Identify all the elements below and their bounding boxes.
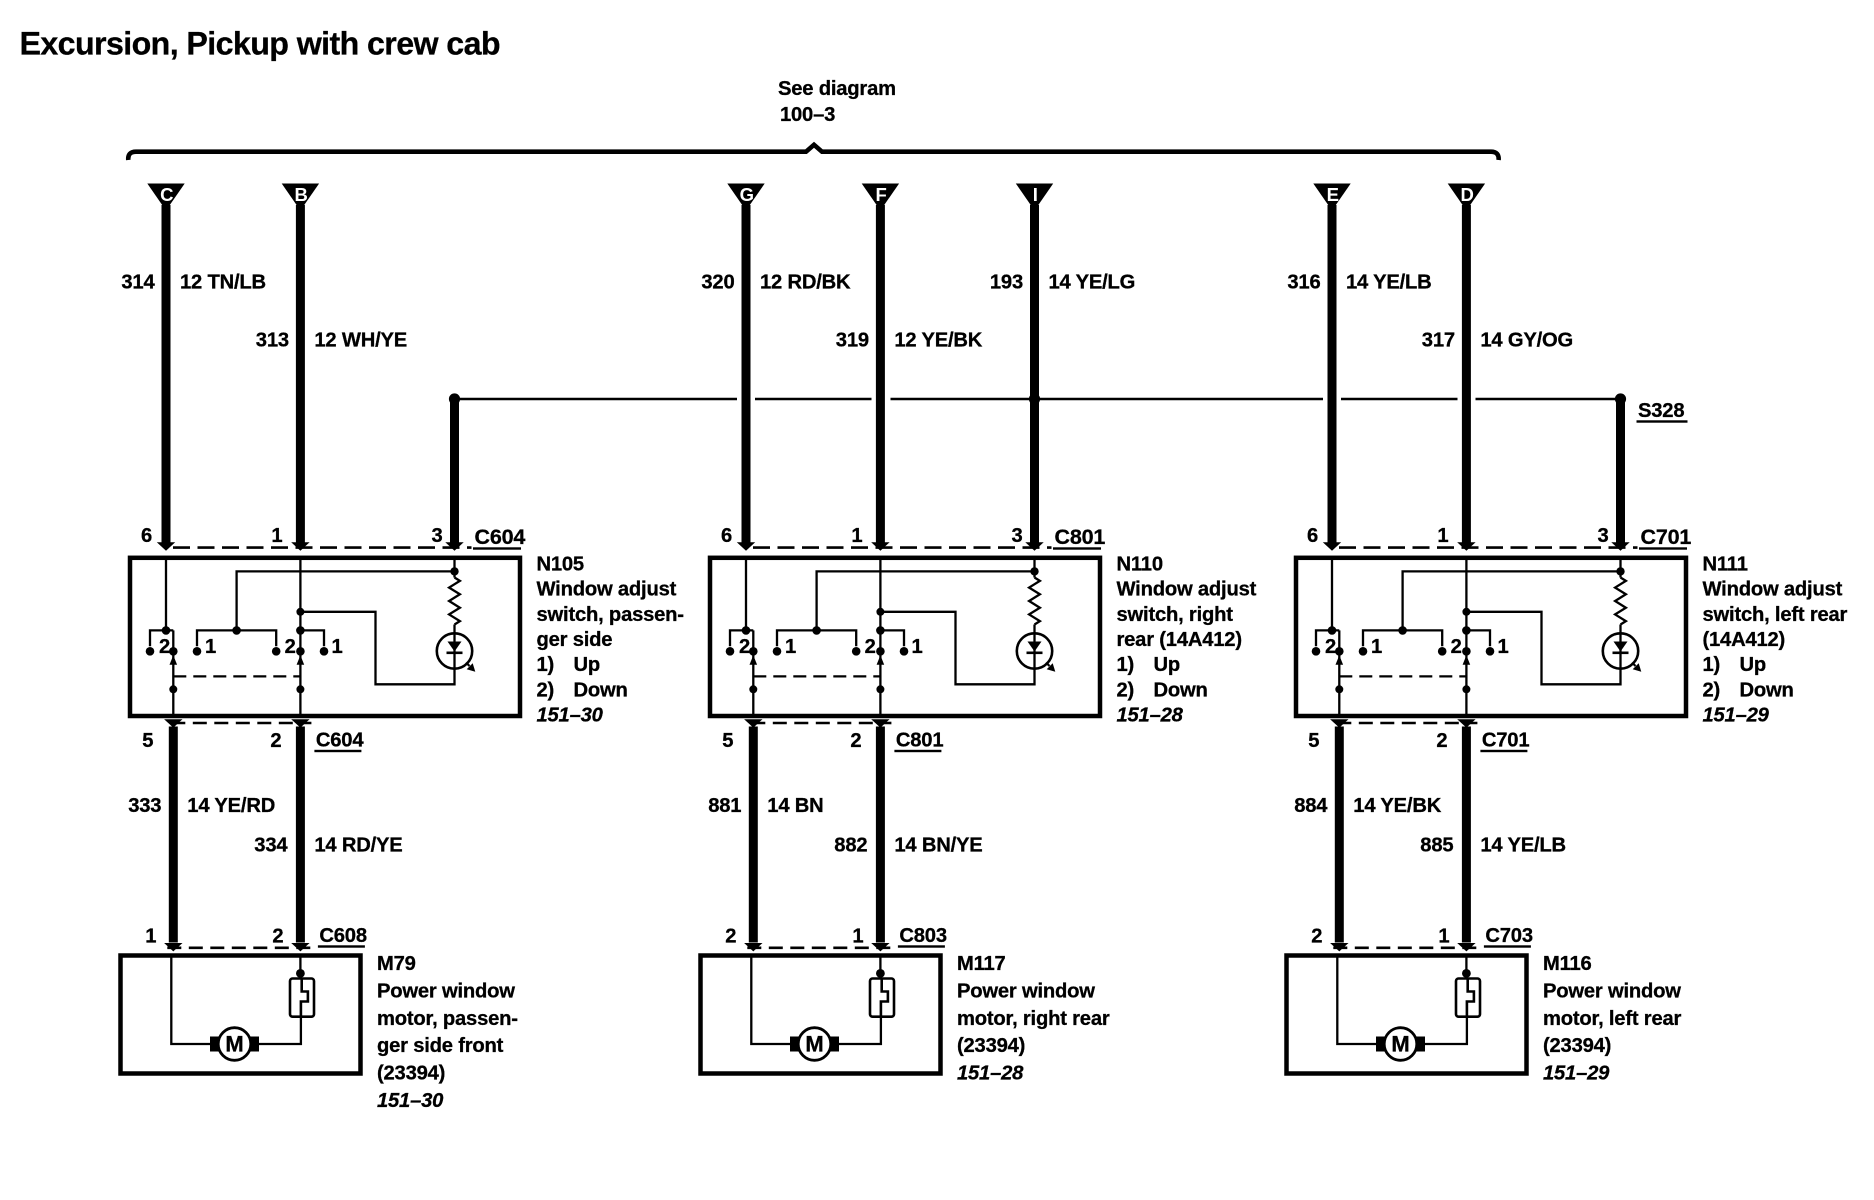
svg-text:(23394): (23394) [1543,1035,1611,1057]
svg-text:14 GY/OG: 14 GY/OG [1480,330,1573,352]
wire: resistor to indicator lamp [1033,625,1035,635]
connector pin arrow pin 3 C604 [445,542,463,550]
wire circuit 314 12 TN/LB from connector C [162,205,171,544]
svg-text:12 TN/LB: 12 TN/LB [180,272,266,294]
svg-text:5: 5 [142,730,153,752]
wire: splice bus to S328 [455,398,1621,400]
connector pin arrow pin 2 C608 [291,943,309,951]
svg-text:C801: C801 [896,730,943,752]
connector label C701 (bottom) [1480,730,1529,753]
connector pin arrow pin 3 C801 [1025,542,1043,550]
svg-text:(23394): (23394) [957,1035,1025,1057]
svg-text:2): 2) [1117,679,1135,701]
wire: motor lead (left pin) [751,956,790,1045]
M116 power window motor, left rear: housing box [1287,956,1527,1074]
svg-text:2: 2 [725,926,736,948]
wire circuit 881 14 BN [749,727,758,943]
wiper arrowhead switch A [750,655,758,665]
svg-text:317: 317 [1422,330,1455,352]
svg-text:M: M [805,1031,823,1056]
svg-text:14 RD/YE: 14 RD/YE [314,835,402,857]
svg-text:14 YE/RD: 14 YE/RD [187,795,275,817]
N111 window adjust switch, left rear: housing box [1296,558,1686,716]
wire: pin 1 / switch B pole [879,558,881,716]
junction dot contact 2 switch A [726,647,735,656]
junction dot contact 1 switch A [1359,647,1368,656]
svg-text:switch, right: switch, right [1117,604,1234,626]
svg-text:M116: M116 [1543,953,1592,975]
svg-text:Excursion, Pickup with crew ca: Excursion, Pickup with crew cab [20,26,500,62]
svg-text:2): 2) [537,679,555,701]
svg-text:2: 2 [272,926,283,948]
junction dot lamp return at pole B [296,608,304,616]
connector label C604 (top) [473,525,525,550]
wire: switch A pole to pin 5 [1338,630,1340,716]
svg-text:C801: C801 [1055,525,1106,549]
svg-text:151–30: 151–30 [377,1090,444,1112]
connector pin arrow pin 1 C604 [291,542,309,550]
svg-text:C701: C701 [1641,525,1692,549]
svg-text:I: I [1033,184,1038,205]
svg-text:3: 3 [1011,525,1022,547]
connector line C801 (bottom) [751,722,891,725]
connector pin arrow pin 1 C703 [1457,943,1475,951]
svg-text:ger side: ger side [537,629,613,651]
connector arrow C (from diagram 100-3) [147,184,184,211]
wiper arrowhead switch A [170,655,178,665]
mechanical link between switch wipers [1339,675,1466,677]
wire: breaker to motor [1425,1017,1467,1044]
svg-text:1: 1 [145,926,156,948]
wire: pin 3 lead to resistor [453,558,455,578]
svg-text:motor, left rear: motor, left rear [1543,1008,1681,1030]
svg-text:14 YE/BK: 14 YE/BK [1353,795,1441,817]
svg-text:334: 334 [254,835,288,857]
junction dot rail / resistor column [450,567,458,575]
junction dot pin 1 bracket at pole B [1462,626,1471,635]
connector line C701 (top) [1339,546,1638,549]
splice S328 junction dot [1615,393,1626,404]
svg-text:6: 6 [1307,525,1318,547]
svg-text:151–29: 151–29 [1543,1063,1610,1085]
circuit breaker (motor thermal protector) [1456,979,1480,1017]
svg-text:6: 6 [721,525,732,547]
svg-text:1): 1) [537,654,555,676]
connector pin arrow pin 6 C801 [737,542,755,550]
svg-text:316: 316 [1287,272,1320,294]
svg-text:1: 1 [205,636,216,658]
svg-text:Window adjust: Window adjust [537,579,677,601]
junction dot pin 6 at bracket A [162,626,171,635]
junction dot breaker top lead [876,969,885,978]
junction dot wiper pivot switch B [876,685,884,693]
junction dot breaker top lead [296,969,305,978]
junction dot wiper pivot switch B [296,685,304,693]
motor M116 (M symbol) [1376,1028,1425,1061]
svg-text:Up: Up [1154,654,1181,676]
svg-text:151–28: 151–28 [957,1063,1024,1085]
svg-text:1: 1 [1438,926,1449,948]
junction dot contact 1 switch B [1486,647,1495,656]
svg-text:5: 5 [722,730,733,752]
wire: pin 6 bracket to contact 2 (switch A) [730,630,753,646]
junction dot illumination rail at bracket [232,626,241,635]
svg-text:1: 1 [331,636,342,658]
junction dot contact / wiper switch B [876,647,885,656]
svg-text:Down: Down [574,679,628,701]
svg-text:1: 1 [785,636,796,658]
svg-text:12 YE/BK: 12 YE/BK [894,330,982,352]
svg-text:2: 2 [739,636,750,658]
junction dot lamp return at pole B [876,608,884,616]
circuit breaker (motor thermal protector) [290,979,314,1017]
wire: bracket joining contact 1 (switch A) and contact 2 (switch B) [777,630,856,646]
connector arrow D (from diagram 100-3) [1448,184,1485,211]
junction dot breaker top lead [1462,969,1471,978]
N110 window adjust switch, right rear: housing box [710,558,1100,716]
svg-text:12 WH/YE: 12 WH/YE [314,330,407,352]
connector pin arrow pin 1 C701 [1457,542,1475,550]
junction dot wiper pivot switch A [749,685,757,693]
svg-text:320: 320 [701,272,734,294]
wire: pin 6 lead inside switch [745,558,747,631]
connector pin arrow pin 6 C701 [1323,542,1341,550]
svg-text:2: 2 [865,636,876,658]
wire circuit 317 14 GY/OG from connector D [1462,205,1471,544]
wire: switch A pole to pin 5 [752,630,754,716]
svg-text:Power window: Power window [957,980,1095,1002]
wiper arrowhead switch B [297,655,305,665]
wire: bracket joining contact 1 (switch A) and contact 2 (switch B) [1363,630,1442,646]
junction dot contact 2 switch B [1438,647,1447,656]
svg-text:Window adjust: Window adjust [1117,579,1257,601]
junction dot: left riser at splice bus [449,393,460,404]
svg-text:1: 1 [1371,636,1382,658]
svg-text:151–30: 151–30 [537,705,604,727]
connector line C604 (bottom) [171,722,311,725]
svg-text:1): 1) [1117,654,1135,676]
junction dot contact 1 switch A [193,647,202,656]
junction dot pin 6 at bracket A [742,626,751,635]
connector pin arrow pin 5 C701 [1330,719,1348,727]
svg-text:C803: C803 [899,925,946,947]
svg-text:2: 2 [1436,730,1447,752]
svg-text:C604: C604 [475,525,526,549]
wire: pin 6 bracket to contact 2 (switch A) [150,630,173,646]
wiper arrowhead switch A [1336,655,1344,665]
connector pin arrow pin 1 C801 [871,542,889,550]
svg-text:14 YE/LG: 14 YE/LG [1049,272,1136,294]
svg-text:1): 1) [1703,654,1721,676]
svg-text:switch, left rear: switch, left rear [1703,604,1848,626]
connector arrow B (from diagram 100-3) [282,184,319,211]
note: See diagram 100-3 [778,78,896,126]
connector arrow I (from diagram 100-3) [1016,184,1053,211]
wire: breaker to motor [839,1017,881,1044]
label: M116 power window motor, left rear [1543,953,1681,1085]
connector pin arrow pin 2 C803 [744,943,762,951]
wire circuit 333 14 YE/RD [169,727,178,943]
junction dot illumination rail at bracket [812,626,821,635]
connector line C803 [747,946,891,949]
wiper arrowhead switch B [877,655,885,665]
svg-text:14 BN: 14 BN [767,795,823,817]
svg-text:1: 1 [1437,525,1448,547]
wire: pin 1 bracket to contact 1 (switch B) [880,630,904,646]
svg-text:See diagram: See diagram [778,78,896,100]
junction dot contact 2 switch B [272,647,281,656]
wire: lamp return to switch B pole [1466,612,1620,685]
connector line C604 (top) [173,546,472,549]
motor M117 (M symbol) [790,1028,839,1061]
svg-text:G: G [740,184,754,205]
indicator lamp (LED) of N604 switch [437,633,476,672]
svg-text:Down: Down [1740,679,1794,701]
wire: pin 1 bracket to contact 1 (switch B) [1466,630,1490,646]
svg-text:12 RD/BK: 12 RD/BK [760,272,851,294]
resistor (switch illumination) [1029,578,1040,625]
bus bracket from diagram 100-3 [128,145,1498,160]
svg-text:C: C [160,184,173,205]
svg-text:314: 314 [121,272,155,294]
wire: motor lead via circuit breaker (right pin) [299,956,301,979]
wiper arrowhead switch B [1463,655,1471,665]
svg-text:C604: C604 [316,730,364,752]
junction dot rail / resistor column [1616,567,1624,575]
label: splice S328 [1637,400,1688,423]
wire: pin 1 bracket to contact 1 (switch B) [300,630,324,646]
connector pin arrow pin 2 C701 [1457,719,1475,727]
wire: breaker to motor [259,1017,301,1044]
svg-text:2: 2 [1325,636,1336,658]
svg-text:E: E [1327,184,1339,205]
svg-text:2: 2 [1451,636,1462,658]
svg-text:N111: N111 [1703,553,1748,575]
svg-text:F: F [876,184,887,205]
junction dot pin 1 bracket at pole B [296,626,305,635]
svg-text:Power window: Power window [377,980,515,1002]
wire wire from splice S328 to pin 3 C701 [1616,399,1625,544]
svg-text:1: 1 [271,525,282,547]
M117 power window motor, right rear: housing box [701,956,941,1074]
resistor (switch illumination) [449,578,460,625]
connector pin arrow pin 5 C801 [744,719,762,727]
junction dot pin 1 bracket at pole B [876,626,885,635]
wire: pin 1 / switch B pole [1465,558,1467,716]
svg-text:2: 2 [270,730,281,752]
wire: pin 3 lead to resistor [1619,558,1621,578]
label: M79 power window motor, passenger side front [377,953,518,1112]
svg-text:5: 5 [1308,730,1319,752]
svg-text:1: 1 [911,636,922,658]
svg-text:100–3: 100–3 [780,104,835,126]
svg-text:C703: C703 [1485,925,1532,947]
wire: illumination feed rail [1403,571,1621,630]
wire: lamp return to switch B pole [300,612,454,685]
junction dot illumination rail at bracket [1398,626,1407,635]
junction dot contact / wiper switch A [169,647,178,656]
svg-text:1: 1 [852,926,863,948]
svg-text:2: 2 [159,636,170,658]
svg-text:Up: Up [574,654,601,676]
wire circuit 882 14 BN/YE [876,727,885,943]
junction dot contact 2 switch A [146,647,155,656]
connector label C801 (top) [1053,525,1105,550]
junction dot contact 1 switch B [320,647,329,656]
svg-text:3: 3 [1597,525,1608,547]
M79 power window motor, passenger side front: housing box [121,956,361,1074]
N105 window adjust switch, passenger side: housing box [130,558,520,716]
connector line C608 [167,946,311,949]
svg-text:884: 884 [1294,795,1328,817]
wire circuit 316 14 YE/LB from connector E [1328,205,1337,544]
connector pin arrow pin 2 C703 [1330,943,1348,951]
connector label C703 [1484,925,1533,948]
wire circuit 313 12 WH/YE from connector B [296,205,305,544]
svg-text:14 YE/LB: 14 YE/LB [1480,835,1566,857]
connector pin arrow pin 2 C801 [871,719,889,727]
wire circuit 885 14 YE/LB [1462,727,1471,943]
wire: lamp return to switch B pole [880,612,1034,685]
svg-text:rear (14A412): rear (14A412) [1117,629,1242,651]
svg-text:14 BN/YE: 14 BN/YE [894,835,982,857]
wire: motor lead via circuit breaker (right pin) [879,956,881,979]
wire: resistor to indicator lamp [1619,625,1621,635]
connector pin arrow pin 1 C608 [164,943,182,951]
svg-text:881: 881 [708,795,741,817]
svg-text:ger side front: ger side front [377,1035,504,1057]
motor M79 (M symbol) [210,1028,259,1061]
svg-text:(23394): (23394) [377,1063,445,1085]
wire: pin 6 lead inside switch [1331,558,1333,631]
svg-text:Window adjust: Window adjust [1703,579,1843,601]
connector label C604 (bottom) [314,730,364,753]
wire: resistor to indicator lamp [453,625,455,635]
label: M117 power window motor, right rear [957,953,1110,1085]
svg-text:1: 1 [1497,636,1508,658]
junction dot pin 6 at bracket A [1328,626,1337,635]
junction dot contact 2 switch B [852,647,861,656]
wire wire from splice S328 to pin 3 C604 [450,399,459,544]
svg-text:3: 3 [431,525,442,547]
svg-text:Down: Down [1154,679,1208,701]
svg-text:151–29: 151–29 [1703,705,1770,727]
svg-text:319: 319 [836,330,869,352]
wire: motor lead (left pin) [171,956,210,1045]
circuit breaker (motor thermal protector) [870,979,894,1017]
wire: bracket joining contact 1 (switch A) and contact 2 (switch B) [197,630,276,646]
wire: motor lead (left pin) [1337,956,1376,1045]
junction dot contact 1 switch A [773,647,782,656]
wire: pin 3 lead to resistor [1033,558,1035,578]
junction dot wiper pivot switch A [1335,685,1343,693]
svg-text:2): 2) [1703,679,1721,701]
svg-text:B: B [295,184,308,205]
junction dot wiper pivot switch A [169,685,177,693]
svg-text:Power window: Power window [1543,980,1681,1002]
indicator lamp (LED) of N801 switch [1017,633,1056,672]
svg-text:193: 193 [990,272,1023,294]
svg-text:motor, passen-: motor, passen- [377,1008,518,1030]
svg-text:C608: C608 [319,925,366,947]
svg-text:motor, right rear: motor, right rear [957,1008,1110,1030]
svg-text:C701: C701 [1482,730,1529,752]
svg-text:D: D [1461,184,1474,205]
svg-text:14 YE/LB: 14 YE/LB [1346,272,1432,294]
svg-text:switch, passen-: switch, passen- [537,604,684,626]
svg-text:(14A412): (14A412) [1703,629,1786,651]
svg-text:N110: N110 [1117,553,1163,575]
svg-text:S328: S328 [1638,400,1684,422]
connector line C801 (top) [753,546,1052,549]
connector arrow F (from diagram 100-3) [862,184,899,211]
wire: pin 6 lead inside switch [165,558,167,631]
junction dot lamp return at pole B [1462,608,1470,616]
wire: illumination feed rail [237,571,455,630]
svg-text:6: 6 [141,525,152,547]
connector pin arrow pin 2 C604 [291,719,309,727]
indicator lamp (LED) of N701 switch [1603,633,1642,672]
connector label C803 [898,925,947,948]
svg-text:M: M [1391,1031,1409,1056]
svg-text:N105: N105 [537,553,584,575]
wire circuit 884 14 YE/BK [1335,727,1344,943]
svg-text:2: 2 [1311,926,1322,948]
connector arrow G (from diagram 100-3) [727,184,764,211]
svg-text:M: M [225,1031,243,1056]
wire: pin 1 / switch B pole [299,558,301,716]
label: N110 window adjust switch, right rear [1117,553,1257,726]
svg-text:1: 1 [851,525,862,547]
wire circuit 319 12 YE/BK from connector F [876,205,885,544]
wire: illumination feed rail [817,571,1035,630]
label: N105 window adjust switch, passenger side [537,553,684,726]
connector pin arrow pin 6 C604 [157,542,175,550]
wire circuit 334 14 RD/YE [296,727,305,943]
junction dot: splice bus at wire I [1029,393,1040,404]
wire: switch A pole to pin 5 [172,630,174,716]
connector pin arrow pin 3 C701 [1611,542,1629,550]
svg-text:885: 885 [1420,835,1453,857]
junction dot contact / wiper switch B [296,647,305,656]
wire circuit 193 14 YE/LG from connector I [1030,205,1039,544]
svg-text:Up: Up [1740,654,1767,676]
mechanical link between switch wipers [173,675,300,677]
connector pin arrow pin 5 C604 [164,719,182,727]
svg-text:M79: M79 [377,953,416,975]
junction dot contact / wiper switch B [1462,647,1471,656]
junction dot contact / wiper switch A [749,647,758,656]
connector arrow E (from diagram 100-3) [1313,184,1350,211]
junction dot wiper pivot switch B [1462,685,1470,693]
svg-text:333: 333 [128,795,161,817]
resistor (switch illumination) [1615,578,1626,625]
svg-text:2: 2 [285,636,296,658]
svg-text:313: 313 [256,330,289,352]
connector line C703 [1333,946,1477,949]
junction dot contact 2 switch A [1312,647,1321,656]
mechanical link between switch wipers [753,675,880,677]
connector line C701 (bottom) [1337,722,1477,725]
wire circuit 320 12 RD/BK from connector G [742,205,751,544]
svg-text:151–28: 151–28 [1117,705,1184,727]
wire: motor lead via circuit breaker (right pin) [1465,956,1467,979]
svg-text:M117: M117 [957,953,1006,975]
connector label C701 (top) [1639,525,1691,550]
connector pin arrow pin 1 C803 [871,943,889,951]
connector label C801 (bottom) [894,730,943,753]
wire: pin 6 bracket to contact 2 (switch A) [1316,630,1339,646]
